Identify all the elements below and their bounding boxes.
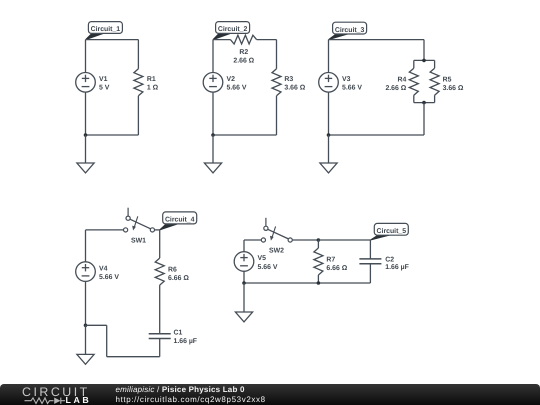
wire circuit4 bottom horizontal 2 — [107, 356, 160, 358]
svg-text:R6: R6 — [168, 266, 177, 273]
wire circuit2 left — [212, 40, 214, 135]
CircuitLab logo resistor-diode symbol — [25, 398, 66, 404]
junction parallel bottom — [422, 101, 426, 105]
wire R7 top lead — [317, 240, 319, 248]
wire R3 bottom lead — [276, 96, 278, 135]
svg-text:5.66 V: 5.66 V — [258, 264, 278, 271]
svg-text:3.66 Ω: 3.66 Ω — [443, 85, 464, 92]
node Circuit_3 name balloon — [329, 34, 348, 40]
junction circuit3 bottom-left — [327, 133, 331, 137]
ground circuit5 — [235, 283, 252, 322]
wire circuit1 top — [86, 39, 139, 41]
svg-text:V1: V1 — [99, 76, 108, 83]
svg-text:R4: R4 — [397, 77, 406, 84]
svg-text:5.66 V: 5.66 V — [342, 85, 362, 92]
wire SW2 to R7 — [292, 239, 318, 241]
ground circuit1 — [77, 135, 94, 173]
svg-text:Circuit_3: Circuit_3 — [335, 27, 365, 34]
wire circuit3 bottom — [329, 134, 425, 136]
resistor R3 — [272, 69, 281, 96]
svg-text:2.66 Ω: 2.66 Ω — [385, 85, 406, 92]
resistor R6 — [155, 258, 164, 285]
junction circuit5 bottom R7 — [317, 281, 321, 285]
voltage source V4 — [76, 262, 96, 282]
wire parallel bottom bar — [414, 102, 435, 104]
wire circuit4 bottom vertical — [106, 325, 108, 356]
node Circuit_1 name balloon — [86, 33, 104, 39]
switch SW1 — [124, 208, 155, 232]
svg-text:5 V: 5 V — [99, 85, 110, 92]
svg-text:2.66 Ω: 2.66 Ω — [233, 57, 254, 64]
junction parallel top — [422, 59, 426, 63]
node Circuit_2 name balloon — [213, 33, 231, 39]
svg-text:5.66 V: 5.66 V — [99, 274, 119, 281]
svg-text:1.66 µF: 1.66 µF — [385, 264, 409, 271]
svg-text:Circuit_1: Circuit_1 — [91, 26, 121, 33]
svg-text:Circuit_4: Circuit_4 — [165, 217, 195, 224]
wire R5 top lead — [434, 60, 436, 68]
wire circuit1 bottom — [86, 134, 139, 136]
svg-text:V3: V3 — [342, 76, 351, 83]
svg-text:C2: C2 — [385, 256, 394, 263]
wire R3 top lead — [276, 40, 278, 69]
svg-text:6.66 Ω: 6.66 Ω — [168, 275, 189, 282]
wire R6 to C1 — [159, 285, 161, 334]
junction circuit2 bottom-left — [211, 133, 215, 137]
footer black bar — [0, 384, 540, 405]
junction circuit5 bottom-left — [242, 281, 246, 285]
svg-text:6.66 Ω: 6.66 Ω — [326, 265, 347, 272]
wire R1 top lead — [137, 40, 139, 69]
wire R5 bottom lead — [434, 95, 436, 102]
svg-text:LAB: LAB — [66, 395, 92, 405]
svg-text:3.66 Ω: 3.66 Ω — [284, 85, 305, 92]
resistor R1 — [134, 69, 143, 96]
svg-text:R3: R3 — [284, 76, 293, 83]
node Circuit_4 name balloon — [160, 224, 178, 230]
wire SW1 to node — [155, 229, 160, 231]
resistor R5 — [430, 68, 439, 95]
wire circuit2 bottom — [213, 134, 277, 136]
wire C2 bottom lead — [369, 264, 371, 283]
credits line 1: author / title — [116, 385, 245, 394]
wire circuit4 bottom horizontal 1 — [86, 324, 107, 326]
junction circuit1 bottom-left — [84, 133, 88, 137]
node Circuit_5 name balloon — [370, 235, 389, 240]
wire parallel top bar — [414, 59, 435, 61]
svg-text:Circuit_5: Circuit_5 — [377, 228, 407, 235]
wire R6 top lead — [159, 230, 161, 258]
wire circuit3 left — [328, 40, 330, 135]
svg-text:V4: V4 — [99, 265, 108, 272]
voltage source V1 — [76, 73, 96, 93]
wire circuit5 top right — [318, 239, 370, 241]
resistor R4 — [409, 68, 418, 95]
resistor R7 — [314, 248, 323, 275]
credits line 2: url — [116, 395, 266, 404]
wire circuit3 right upper — [423, 40, 425, 61]
switch SW2 — [261, 218, 292, 242]
junction circuit5 top R7 — [317, 238, 321, 242]
wire R4 top lead — [413, 60, 415, 68]
voltage source V5 — [234, 252, 254, 272]
wire circuit3 top — [329, 39, 425, 41]
ground circuit3 — [320, 135, 337, 173]
wire circuit2 top right of R2 — [257, 39, 277, 41]
svg-text:SW1: SW1 — [131, 237, 146, 244]
svg-text:R1: R1 — [147, 76, 156, 83]
capacitor C2 — [359, 259, 381, 264]
ground circuit4 — [77, 325, 94, 364]
voltage source V2 — [203, 73, 223, 93]
wire circuit3 right lower — [423, 103, 425, 135]
svg-text:V2: V2 — [227, 76, 236, 83]
svg-text:C1: C1 — [174, 330, 183, 337]
wire C1 bottom lead — [159, 339, 161, 357]
svg-text:R2: R2 — [239, 49, 248, 56]
svg-text:V5: V5 — [258, 255, 267, 262]
wire circuit4 top — [86, 229, 124, 231]
svg-text:5.66 V: 5.66 V — [227, 85, 247, 92]
wire C2 top lead — [369, 240, 371, 259]
wire R1 bottom lead — [137, 96, 139, 135]
wire circuit5 top left — [244, 239, 261, 241]
svg-text:Circuit_2: Circuit_2 — [218, 26, 248, 33]
wire R4 bottom lead — [413, 95, 415, 102]
wire circuit1 left — [85, 40, 87, 135]
wire circuit5 left — [243, 240, 245, 283]
voltage source V3 — [319, 73, 339, 93]
wire circuit5 bottom — [244, 282, 370, 284]
resistor R2 — [230, 35, 256, 44]
svg-text:R7: R7 — [326, 256, 335, 263]
wire circuit2 top left of R2 — [213, 39, 230, 41]
capacitor C1 — [149, 334, 171, 339]
junction circuit4 bottom-left — [84, 324, 88, 328]
svg-text:1 Ω: 1 Ω — [147, 85, 159, 92]
ground circuit2 — [204, 135, 221, 173]
svg-text:SW2: SW2 — [269, 247, 284, 254]
wire circuit4 left — [85, 230, 87, 325]
svg-text:R5: R5 — [443, 77, 452, 84]
wire R7 bottom lead — [317, 275, 319, 283]
svg-text:1.66 µF: 1.66 µF — [174, 338, 198, 345]
